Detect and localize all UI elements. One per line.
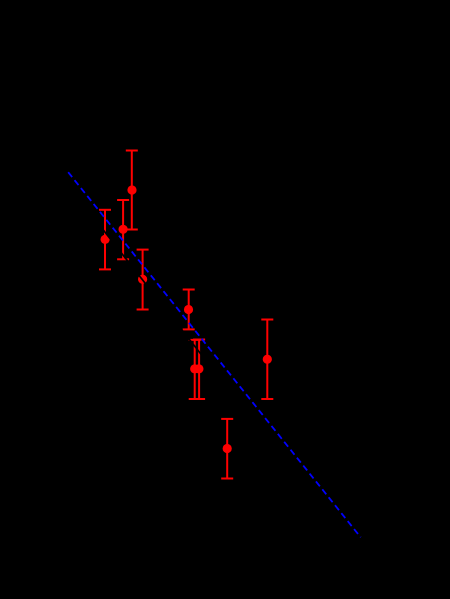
errorbar P9 bbox=[221, 419, 233, 479]
black solid line (visible only where it crosses red elements) bbox=[60, 175, 370, 569]
errorbar P7 bbox=[193, 340, 205, 400]
marker P5 bbox=[184, 305, 193, 314]
marker P7 bbox=[194, 364, 203, 373]
errorbar P4 bbox=[137, 250, 149, 310]
errorbar P5 bbox=[183, 290, 195, 330]
errorbar P6 bbox=[189, 340, 201, 399]
marker P3 bbox=[101, 235, 110, 244]
marker P1 bbox=[127, 185, 136, 194]
errorbar P3 bbox=[99, 210, 111, 270]
errorbar P2 bbox=[117, 200, 129, 259]
marker P4 bbox=[138, 275, 147, 284]
marker P2 bbox=[119, 225, 128, 234]
blue dashed fit line bbox=[68, 172, 361, 537]
errorbar P1 bbox=[126, 151, 138, 230]
marker P6 bbox=[190, 364, 199, 373]
errorbar P8 bbox=[261, 320, 273, 400]
marker P9 bbox=[223, 444, 232, 453]
marker P8 bbox=[263, 355, 272, 364]
